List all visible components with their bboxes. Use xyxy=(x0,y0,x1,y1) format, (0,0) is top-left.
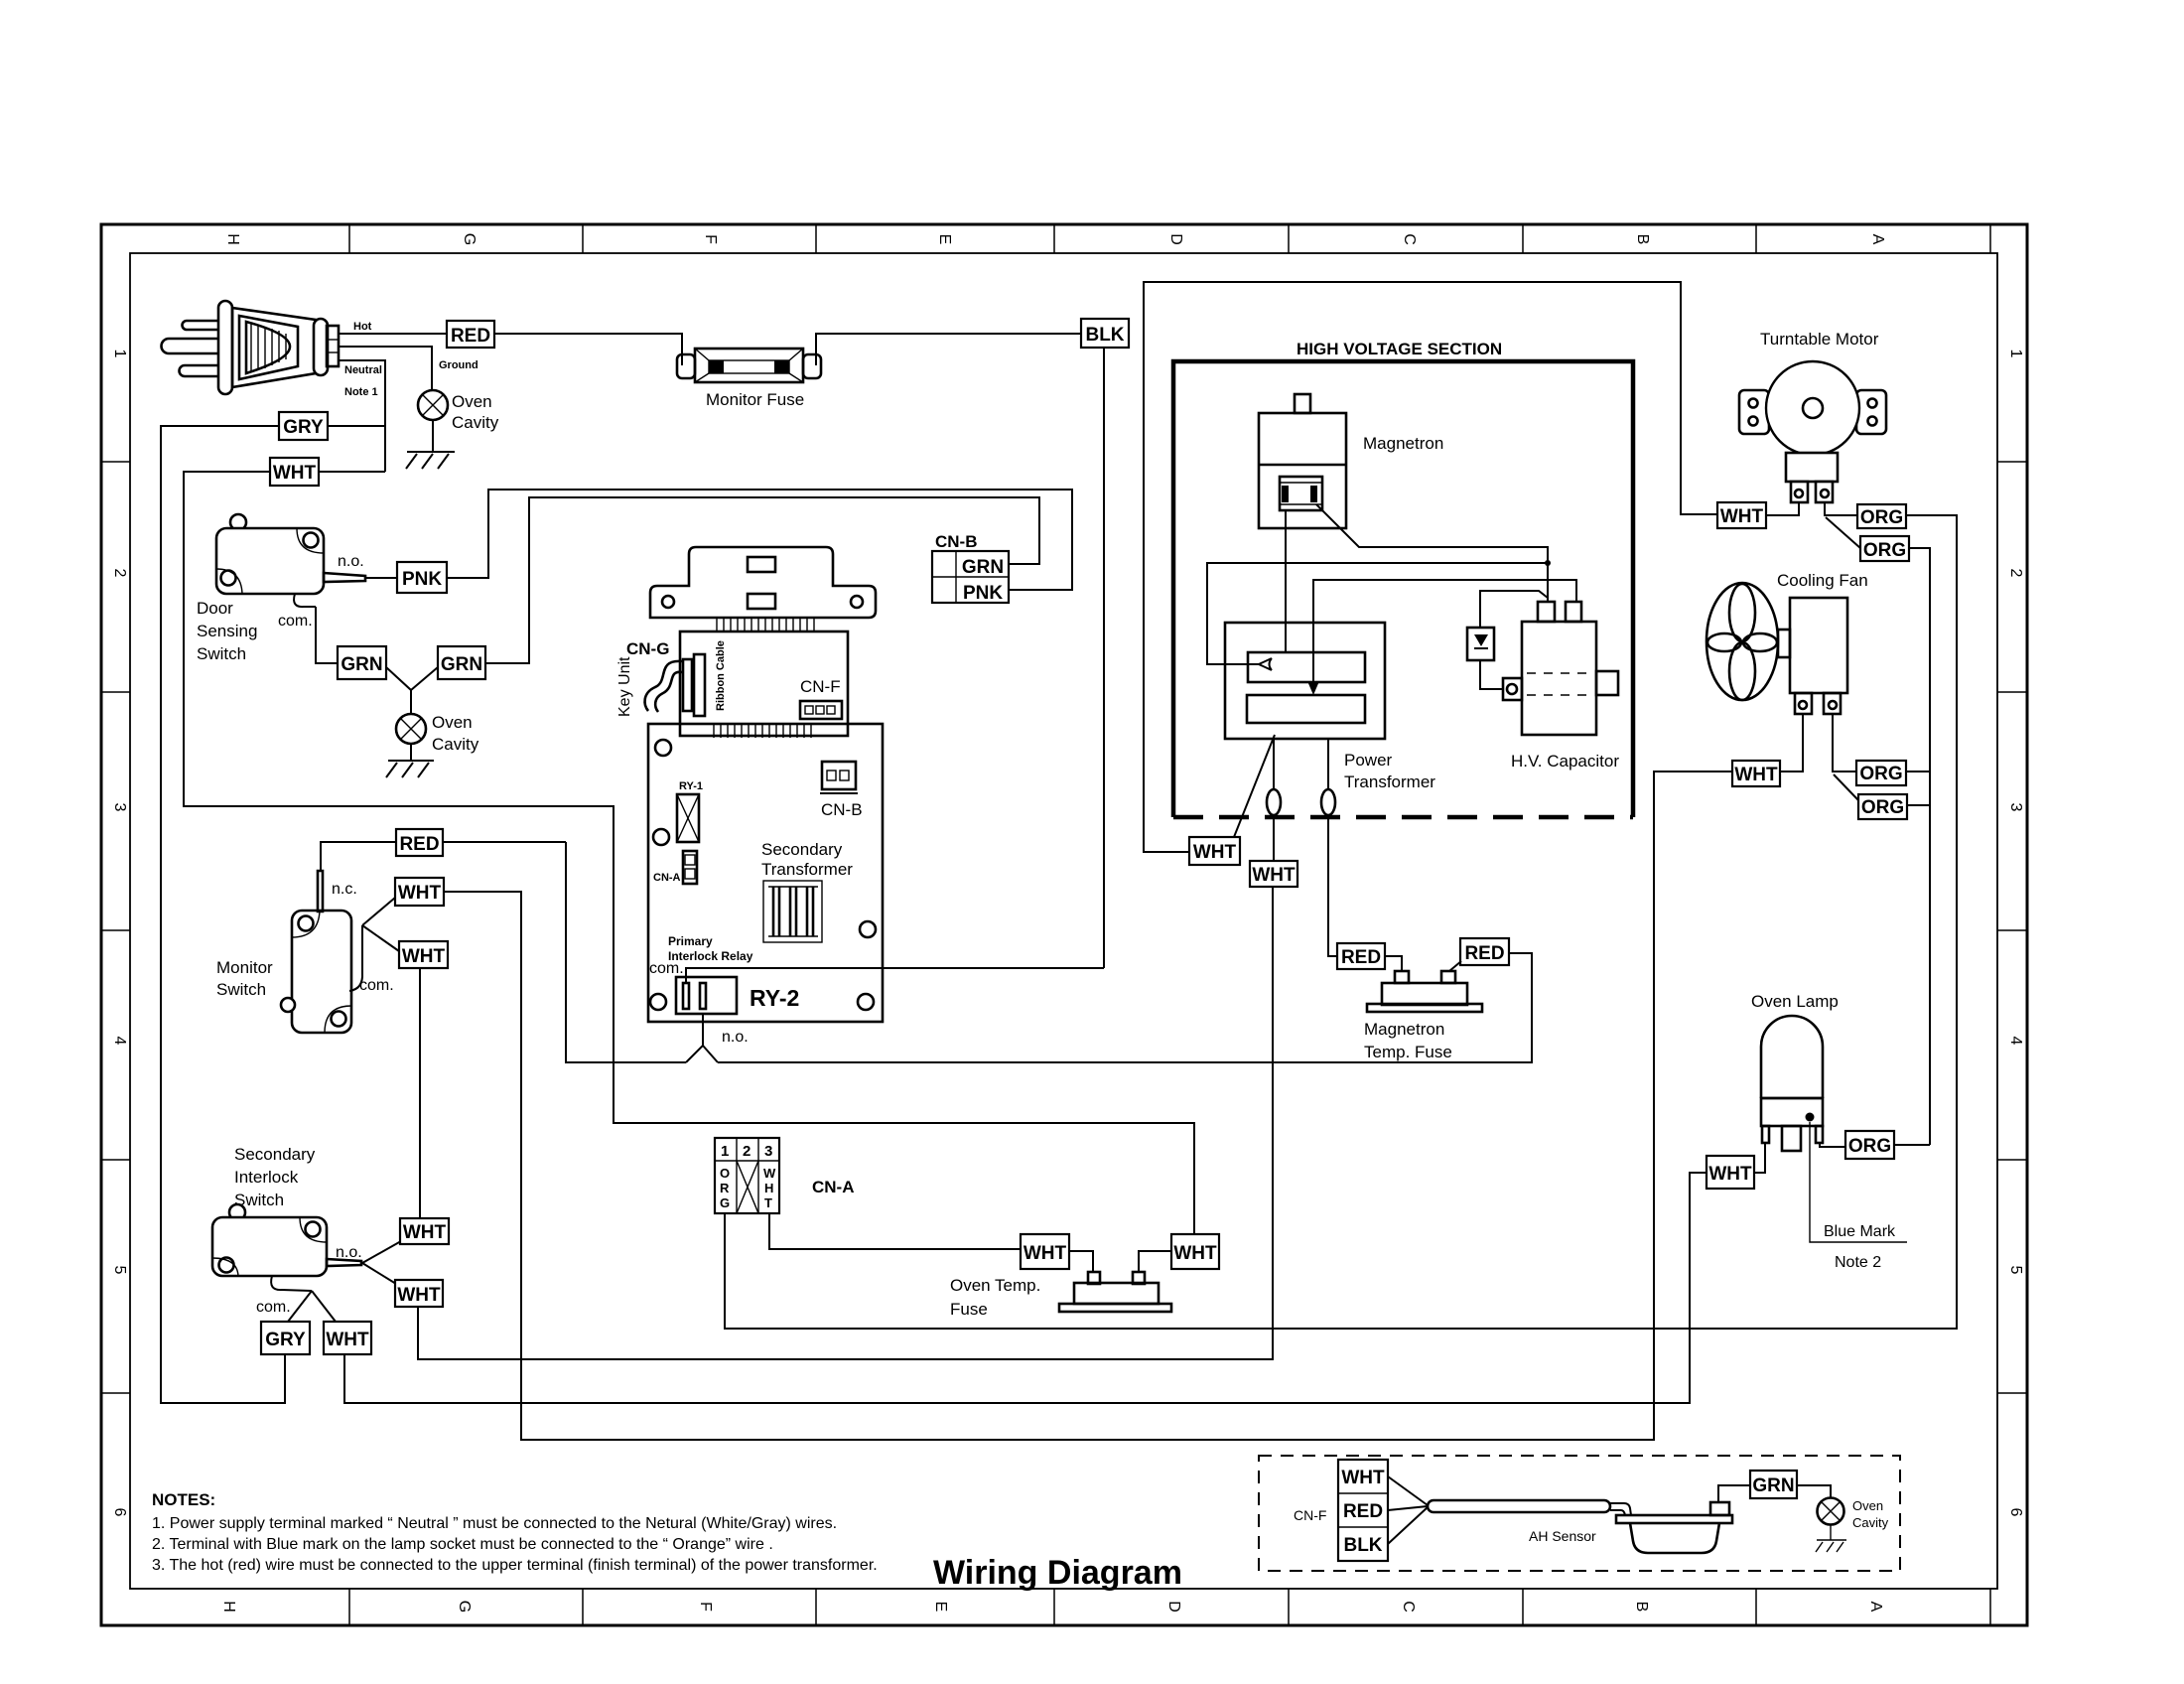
sensor pan flange xyxy=(1616,1515,1732,1523)
wire ORG fan1 to vertical xyxy=(1906,771,1930,772)
svg-text:3. The hot (red) wire must be: 3. The hot (red) wire must be connected … xyxy=(152,1557,878,1574)
svg-text:A: A xyxy=(1869,234,1886,245)
svg-text:R: R xyxy=(720,1181,730,1195)
wire WHT left down to oven temp fuse chain xyxy=(184,472,1194,1234)
svg-text:C: C xyxy=(1401,233,1418,245)
WHT box (monitor a) xyxy=(395,878,444,906)
svg-text:6: 6 xyxy=(111,1508,128,1517)
right border numbers xyxy=(2007,350,2024,1517)
svg-text:GRN: GRN xyxy=(341,654,382,675)
svg-text:WHT: WHT xyxy=(1252,865,1296,886)
svg-text:n.o.: n.o. xyxy=(338,553,364,570)
board hole xyxy=(653,829,669,845)
svg-text:Transformer: Transformer xyxy=(1344,772,1435,791)
long n.o. line right portion xyxy=(718,953,1532,1062)
monitor switch com fork to WHT boxes xyxy=(362,898,395,925)
svg-text:WHT: WHT xyxy=(402,946,446,967)
svg-text:Key Unit: Key Unit xyxy=(616,656,633,717)
ground symbol (bottom right) xyxy=(1816,1525,1846,1552)
svg-text:CN-F: CN-F xyxy=(800,677,841,696)
WHT box (oven temp fuse right) xyxy=(1171,1234,1219,1269)
svg-text:n.o.: n.o. xyxy=(722,1029,749,1046)
BLK box xyxy=(1081,319,1129,348)
svg-text:com.: com. xyxy=(649,960,684,977)
CN-F connector (bottom) xyxy=(1338,1460,1388,1561)
transformer output diagonal to WHT xyxy=(1234,735,1275,837)
GRN box left xyxy=(338,646,386,679)
key unit mounting plate xyxy=(650,547,876,618)
svg-text:G: G xyxy=(456,1601,473,1613)
svg-text:Cavity: Cavity xyxy=(432,735,479,754)
wire WHT com down right to oven lamp xyxy=(344,1173,1706,1403)
magnetron xyxy=(1259,394,1346,528)
blue mark leader line xyxy=(1810,1122,1907,1242)
wire lamp right pin to ORG xyxy=(1820,1143,1845,1147)
svg-text:C: C xyxy=(1400,1601,1417,1613)
left border numbers xyxy=(111,350,128,1517)
ribbon cable squiggle xyxy=(645,661,682,711)
svg-text:B: B xyxy=(1634,234,1651,245)
svg-text:Note 2: Note 2 xyxy=(1835,1254,1881,1271)
ORG box (fan 1) xyxy=(1856,761,1906,785)
GRN box right xyxy=(438,646,485,679)
svg-text:CN-B: CN-B xyxy=(935,532,978,551)
svg-text:D: D xyxy=(1165,1601,1182,1613)
ground symbol 2 xyxy=(386,744,434,777)
power plug xyxy=(162,301,339,394)
transformer left output wire with bushing xyxy=(1267,739,1281,861)
wire PNK to CN-B PNK cell xyxy=(447,490,1072,590)
ORG box (turntable 1) xyxy=(1857,504,1906,528)
CN-G connector bars xyxy=(683,659,692,711)
svg-text:Wiring Diagram: Wiring Diagram xyxy=(933,1554,1182,1592)
CN-B connector (board) xyxy=(820,762,858,793)
WHT box (below transformer) xyxy=(1250,861,1297,887)
svg-text:5: 5 xyxy=(111,1266,128,1275)
wire fuse right terminal to RED xyxy=(1449,961,1461,971)
border frame inner drawing area xyxy=(130,253,1997,1589)
wire door switch com down to GRN xyxy=(316,607,338,663)
svg-text:Ribbon Cable: Ribbon Cable xyxy=(715,640,727,711)
wire ORG fan2 to vertical xyxy=(1907,804,1930,806)
svg-text:GRN: GRN xyxy=(441,654,482,675)
ORG box (lamp) xyxy=(1845,1131,1894,1159)
wire GRY right to neutral xyxy=(328,425,385,427)
svg-text:2: 2 xyxy=(111,569,128,578)
AH sensor rod xyxy=(1428,1500,1610,1512)
RED box (magnetron fuse right) xyxy=(1460,938,1509,965)
svg-text:Monitor: Monitor xyxy=(216,958,273,977)
svg-text:GRN: GRN xyxy=(1752,1475,1794,1496)
svg-text:WHT: WHT xyxy=(1193,842,1237,863)
cooling fan motor xyxy=(1778,598,1847,714)
sensor elbow xyxy=(1610,1503,1631,1515)
CN-B external connector xyxy=(932,551,1009,604)
svg-text:Switch: Switch xyxy=(216,980,266,999)
power transformer xyxy=(1225,623,1385,739)
svg-text:RED: RED xyxy=(451,326,490,347)
WHT box (interlock a) xyxy=(400,1218,449,1244)
svg-text:CN-A: CN-A xyxy=(653,872,681,884)
high voltage section box xyxy=(1173,361,1633,817)
PNK box xyxy=(397,562,447,593)
wire fan left tab to WHT xyxy=(1780,714,1803,772)
wire RED left to n.c. actuator xyxy=(321,842,396,871)
wire pan terminal to GRN xyxy=(1718,1485,1750,1502)
transformer right output wire with bushing xyxy=(1321,739,1337,956)
svg-text:5: 5 xyxy=(2007,1266,2024,1275)
svg-text:GRY: GRY xyxy=(283,417,324,438)
WHT box (interlock b) xyxy=(395,1280,443,1307)
RED box (monitor) xyxy=(396,829,443,856)
svg-text:Ground: Ground xyxy=(439,359,478,371)
CN-A connector (external) xyxy=(715,1138,779,1213)
CN-F connector on key board xyxy=(800,701,842,719)
plate hole right xyxy=(851,596,863,608)
svg-text:RY-2: RY-2 xyxy=(750,985,799,1011)
svg-text:RED: RED xyxy=(1343,1501,1383,1522)
svg-text:W: W xyxy=(763,1166,776,1181)
svg-text:ORG: ORG xyxy=(1860,507,1903,528)
right strip row dividers xyxy=(1997,462,2027,1393)
svg-text:Cooling Fan: Cooling Fan xyxy=(1777,571,1868,590)
wire hot plug to RED xyxy=(339,333,447,335)
plate slot 1 xyxy=(748,557,775,572)
svg-text:G: G xyxy=(461,233,478,245)
wire RED to monitor fuse xyxy=(494,334,682,361)
svg-text:H.V. Capacitor: H.V. Capacitor xyxy=(1511,752,1619,771)
RY-2 relay xyxy=(676,977,737,1014)
svg-text:WHT: WHT xyxy=(1734,765,1778,785)
svg-text:Temp. Fuse: Temp. Fuse xyxy=(1364,1043,1452,1061)
board hole xyxy=(655,740,671,756)
svg-text:GRY: GRY xyxy=(265,1330,306,1350)
wire right motor tab to ORG boxes xyxy=(1825,502,1857,515)
wire transformer primary rail to capacitor left xyxy=(1207,563,1548,664)
plate slot 2 xyxy=(748,594,775,609)
svg-text:2: 2 xyxy=(2007,569,2024,578)
svg-text:RY-1: RY-1 xyxy=(679,780,703,792)
RED box (hot) xyxy=(447,321,494,348)
svg-text:ORG: ORG xyxy=(1859,764,1902,784)
svg-text:B: B xyxy=(1633,1602,1650,1613)
svg-text:D: D xyxy=(1167,233,1184,245)
wire WHT b down to secondary interlock WHT xyxy=(419,968,421,1218)
svg-text:H: H xyxy=(220,1601,237,1613)
wire magnetron filament left down to transformer xyxy=(1285,510,1287,653)
ground symbol (top) xyxy=(406,420,455,469)
svg-text:com.: com. xyxy=(278,613,313,630)
wire interlock WHT b down to transformer line xyxy=(418,887,1273,1359)
connector comb upper xyxy=(717,618,814,631)
Y junction wires to oven cavity lamp 2 xyxy=(386,667,411,714)
svg-text:2. Terminal with Blue mark on: 2. Terminal with Blue mark on the lamp s… xyxy=(152,1536,773,1553)
svg-text:F: F xyxy=(702,234,719,244)
wire diode bottom to capacitor tab xyxy=(1480,660,1503,689)
wire magnetron filament right to capacitor xyxy=(1316,504,1548,602)
wire WHT left to fuse xyxy=(1069,1251,1093,1272)
H.V. diode xyxy=(1467,628,1494,660)
svg-text:CN-F: CN-F xyxy=(1294,1507,1326,1523)
wire RED right down to n.o. line xyxy=(443,841,566,843)
svg-text:F: F xyxy=(697,1602,714,1612)
svg-text:1: 1 xyxy=(721,1143,729,1160)
svg-text:Switch: Switch xyxy=(234,1191,284,1209)
main control board xyxy=(648,724,883,1022)
svg-text:Magnetron: Magnetron xyxy=(1363,434,1443,453)
svg-text:n.o.: n.o. xyxy=(336,1244,362,1261)
svg-text:HIGH VOLTAGE SECTION: HIGH VOLTAGE SECTION xyxy=(1297,340,1502,358)
oven cavity lamp (bottom right) xyxy=(1818,1498,1844,1525)
wire WHT to left motor tab xyxy=(1766,502,1799,515)
svg-text:Primary: Primary xyxy=(668,934,713,948)
svg-text:Sensing: Sensing xyxy=(197,622,257,640)
svg-text:WHT: WHT xyxy=(1024,1243,1067,1264)
secondary transformer symbol xyxy=(763,881,822,942)
svg-text:Oven Lamp: Oven Lamp xyxy=(1751,992,1839,1011)
AH sensor dashed enclosure xyxy=(1259,1456,1900,1571)
WHT box (monitor b) xyxy=(399,941,448,968)
oven temp fuse xyxy=(1059,1272,1171,1312)
svg-text:WHT: WHT xyxy=(1708,1164,1752,1185)
svg-text:Cavity: Cavity xyxy=(1852,1515,1889,1530)
door sensing switch xyxy=(216,514,365,607)
left strip row dividers xyxy=(101,462,130,1393)
svg-text:ORG: ORG xyxy=(1863,540,1906,561)
svg-text:WHT: WHT xyxy=(326,1330,369,1350)
H.V. capacitor xyxy=(1503,602,1618,735)
cooling fan blades xyxy=(1706,583,1778,700)
wire ORG2 right down the side xyxy=(1909,548,1930,1145)
svg-text:RED: RED xyxy=(399,834,439,855)
svg-text:Secondary: Secondary xyxy=(761,840,843,859)
sensor pan bowl xyxy=(1630,1523,1719,1553)
top border letters xyxy=(224,233,1886,245)
svg-text:CN-A: CN-A xyxy=(812,1178,855,1196)
svg-text:PNK: PNK xyxy=(402,569,442,590)
board hole xyxy=(860,921,876,937)
svg-text:O: O xyxy=(720,1166,730,1181)
svg-text:com.: com. xyxy=(359,977,394,994)
svg-text:E: E xyxy=(932,1602,949,1613)
WHT box (lamp) xyxy=(1706,1156,1754,1189)
wire GRN to oven cavity lamp xyxy=(1797,1485,1831,1498)
svg-text:Transformer: Transformer xyxy=(761,860,853,879)
svg-text:Secondary: Secondary xyxy=(234,1145,316,1164)
top strip cell dividers xyxy=(349,224,1990,253)
blue mark dot xyxy=(1806,1113,1815,1122)
svg-text:Door: Door xyxy=(197,599,233,618)
RED box (magnetron fuse left) xyxy=(1337,943,1385,969)
svg-text:Monitor Fuse: Monitor Fuse xyxy=(706,390,804,409)
ORG box (fan 2) xyxy=(1858,794,1907,819)
svg-text:Oven Temp.: Oven Temp. xyxy=(950,1276,1040,1295)
svg-text:H: H xyxy=(764,1181,773,1195)
secondary interlock switch xyxy=(212,1204,361,1291)
interlock n.o. fork xyxy=(362,1241,401,1263)
svg-text:WHT: WHT xyxy=(1173,1243,1217,1264)
arrowhead into transformer xyxy=(1307,681,1319,695)
key unit board xyxy=(680,631,848,736)
magnetron temp fuse xyxy=(1367,971,1482,1012)
svg-text:G: G xyxy=(720,1195,730,1210)
svg-text:n.c.: n.c. xyxy=(332,881,357,898)
svg-text:WHT: WHT xyxy=(398,883,442,904)
CN-A connector (board) xyxy=(683,851,697,884)
turntable motor xyxy=(1739,361,1886,502)
svg-text:CN-B: CN-B xyxy=(821,800,863,819)
wire RED to fuse xyxy=(1385,956,1402,971)
bottom strip cell dividers xyxy=(349,1589,1990,1625)
svg-text:4: 4 xyxy=(111,1037,128,1046)
wire GRY left down left side xyxy=(161,426,285,1403)
svg-text:Oven: Oven xyxy=(452,392,492,411)
svg-text:Interlock: Interlock xyxy=(234,1168,299,1187)
pan terminal block xyxy=(1710,1502,1729,1515)
wire WHT right to neutral xyxy=(319,471,385,473)
svg-text:WHT: WHT xyxy=(1341,1468,1385,1488)
WHT box (HV left) xyxy=(1189,837,1240,865)
svg-text:Oven: Oven xyxy=(1852,1498,1883,1513)
wire RY-2 com to BLK vertical xyxy=(686,968,1104,983)
WHT box (interlock com) xyxy=(324,1322,371,1354)
wire neutral from plug xyxy=(339,360,385,472)
board hole xyxy=(858,994,874,1010)
svg-text:4: 4 xyxy=(2007,1037,2024,1046)
svg-text:E: E xyxy=(936,234,953,245)
svg-text:Turntable Motor: Turntable Motor xyxy=(1760,330,1879,349)
svg-text:WHT: WHT xyxy=(273,463,317,484)
long n.o. line left portion xyxy=(566,842,686,1062)
svg-text:3: 3 xyxy=(111,803,128,812)
svg-text:1. Power supply terminal mark: 1. Power supply terminal marked “ Neutra… xyxy=(152,1515,837,1532)
GRY box (bottom) xyxy=(261,1322,310,1354)
HV enclosure WHT loop wire xyxy=(1144,282,1717,852)
svg-text:Blue Mark: Blue Mark xyxy=(1824,1223,1896,1240)
primary fork symbol xyxy=(1259,658,1272,670)
svg-text:A: A xyxy=(1867,1602,1884,1613)
oven cavity lamp 2 xyxy=(396,714,426,744)
CN-F fan-out wires xyxy=(1388,1476,1428,1505)
svg-text:H: H xyxy=(224,233,241,245)
GRY box (top) xyxy=(279,412,328,440)
border frame outer xyxy=(101,224,2027,1625)
plate hole left xyxy=(662,596,674,608)
wire heater rail to capacitor right xyxy=(1313,580,1576,692)
wire fan right tab to ORG boxes xyxy=(1833,714,1856,772)
svg-text:Oven: Oven xyxy=(432,713,473,732)
oven cavity lamp (top) xyxy=(418,390,448,420)
wire door switch n.o. to PNK xyxy=(365,577,397,579)
svg-text:ORG: ORG xyxy=(1848,1136,1891,1157)
WHT box (turntable) xyxy=(1717,502,1766,528)
svg-text:WHT: WHT xyxy=(403,1222,447,1243)
wire CN-A pin1 to turntable ORG xyxy=(725,515,1957,1329)
wire WHT a right down to cooling fan line xyxy=(444,772,1732,1440)
wire ground from plug to oven cavity lamp xyxy=(339,347,432,390)
svg-text:BLK: BLK xyxy=(1343,1535,1382,1556)
RY-1 relay symbol xyxy=(677,794,699,842)
bottom border letters xyxy=(220,1601,1884,1613)
svg-text:Hot: Hot xyxy=(353,321,372,333)
wire WHT lamp to left pin xyxy=(1754,1143,1765,1173)
svg-text:Power: Power xyxy=(1344,751,1393,770)
svg-text:WHT: WHT xyxy=(1720,506,1764,527)
wire fuse to WHT right xyxy=(1139,1251,1171,1272)
connector comb lower xyxy=(714,723,811,738)
GRN box (bottom) xyxy=(1750,1471,1797,1498)
wire diode top to capacitor xyxy=(1480,591,1548,628)
svg-text:Cavity: Cavity xyxy=(452,413,499,432)
svg-text:RED: RED xyxy=(1341,947,1381,968)
svg-text:6: 6 xyxy=(2007,1508,2024,1517)
board hole xyxy=(650,994,666,1010)
wire GRN right box to CN-B GRN cell xyxy=(485,497,1039,663)
WHT box (oven temp fuse left) xyxy=(1021,1234,1069,1269)
wire ORG lamp up to ORG rail xyxy=(1894,1144,1927,1146)
svg-text:BLK: BLK xyxy=(1085,325,1124,346)
junction dot capacitor left xyxy=(1545,560,1551,566)
ORG box (turntable 2) xyxy=(1860,536,1909,561)
wire BLK down to relay com line xyxy=(1103,348,1105,968)
WHT box (fan) xyxy=(1732,761,1780,786)
svg-text:1: 1 xyxy=(2007,350,2024,358)
svg-text:T: T xyxy=(764,1195,772,1210)
svg-text:NOTES:: NOTES: xyxy=(152,1490,215,1509)
interlock com fork xyxy=(288,1291,312,1322)
svg-text:com.: com. xyxy=(256,1299,291,1316)
svg-text:Switch: Switch xyxy=(197,644,246,663)
svg-text:PNK: PNK xyxy=(963,583,1003,604)
svg-text:1: 1 xyxy=(111,350,128,358)
svg-text:Neutral: Neutral xyxy=(344,364,382,376)
svg-text:Magnetron: Magnetron xyxy=(1364,1020,1444,1039)
svg-text:3: 3 xyxy=(2007,803,2024,812)
WHT box (top) xyxy=(270,458,319,486)
wire CN-A pin3 to oven temp fuse WHT xyxy=(769,1213,1021,1249)
svg-text:Note 1: Note 1 xyxy=(344,386,378,398)
svg-text:WHT: WHT xyxy=(397,1285,441,1306)
monitor switch xyxy=(281,871,362,1033)
svg-text:AH Sensor: AH Sensor xyxy=(1529,1528,1596,1544)
svg-text:2: 2 xyxy=(743,1143,751,1160)
svg-text:CN-G: CN-G xyxy=(626,639,669,658)
svg-text:3: 3 xyxy=(764,1143,772,1160)
RY-2 n.o. fork xyxy=(686,1014,703,1062)
monitor fuse xyxy=(677,334,1081,382)
svg-text:GRN: GRN xyxy=(962,557,1004,578)
oven lamp bulb xyxy=(1761,1016,1823,1151)
svg-text:ORG: ORG xyxy=(1861,797,1904,818)
svg-text:Fuse: Fuse xyxy=(950,1300,988,1319)
svg-text:RED: RED xyxy=(1464,943,1504,964)
